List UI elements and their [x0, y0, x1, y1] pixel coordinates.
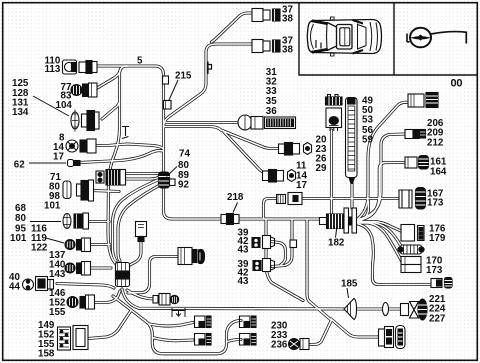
- wire 39/42/43 chain: [271, 242, 286, 265]
- wire diagonal to connector 20/23: [164, 127, 280, 149]
- leader 218: [233, 203, 238, 213]
- wire from small connector 276 to riser x265: [264, 199, 279, 219]
- wire 77/83 branch: [94, 71, 120, 90]
- connector 71 A: [63, 180, 94, 201]
- wire main trunk: loop top + right vertical + bottom run to boot 182: [95, 66, 322, 219]
- wire middle assembly feed: [128, 257, 178, 294]
- connector 71 B: [96, 170, 126, 186]
- svg-text:218: 218: [227, 192, 244, 203]
- svg-text:182: 182: [328, 238, 345, 249]
- wire 146/152 branch: [87, 291, 120, 303]
- connector 116/119/122: [65, 238, 91, 252]
- connector 161/164: [405, 156, 429, 170]
- wire fan boot to inline connector 278: [357, 223, 402, 262]
- component box 326,97: [326, 95, 343, 132]
- wire fan boot to 206 connector: [357, 134, 406, 220]
- connector 20/23/26/29: [279, 143, 312, 156]
- node 206/209/212 labels: [427, 118, 444, 149]
- car top view: [307, 17, 381, 56]
- connector 37/38 no2: [252, 40, 280, 53]
- wire to connector at 158,297: [127, 290, 155, 299]
- connector 77/83: [71, 83, 97, 97]
- connector 158,297: [153, 294, 179, 306]
- tab upper on trunk: [163, 76, 169, 84]
- wire inner white cores: [57, 13, 436, 354]
- leader 182: [336, 226, 338, 238]
- connector 230/233/236: [289, 339, 310, 350]
- svg-text:173: 173: [426, 265, 443, 276]
- assembly 185: [344, 299, 427, 321]
- connector 68/80/95/101: [63, 213, 89, 229]
- cylinder component 117,263: [116, 263, 130, 287]
- connector 31-36: [238, 115, 296, 130]
- connector 39/42/43 no1: [252, 236, 275, 249]
- wire bottom loop: [113, 296, 241, 354]
- connector 125/128/131/134: [71, 110, 99, 132]
- wire riser x292 to 39/42/43: [272, 220, 292, 267]
- wire fan boot to 49/50 connector: [357, 102, 408, 219]
- node 39/42/43 group2 labels: [238, 259, 249, 287]
- node 40/44 labels: [9, 272, 20, 293]
- wire left bundle a: [113, 179, 161, 261]
- svg-text:227: 227: [429, 314, 446, 325]
- svg-text:38: 38: [282, 45, 293, 56]
- svg-text:236: 236: [271, 340, 288, 351]
- wire strip feed: [350, 184, 353, 208]
- svg-text:17: 17: [296, 180, 307, 191]
- wiring harness tubes: [57, 13, 436, 354]
- wire fan boot to 170 box: [357, 222, 403, 250]
- svg-text:122: 122: [31, 243, 48, 254]
- connector 218 inline: [221, 214, 239, 225]
- node 221/224/227 labels: [429, 294, 446, 325]
- wire 62 branch: [80, 151, 163, 163]
- tab on riser 292: [290, 240, 297, 248]
- node 71/80/98/101 labels: [44, 172, 61, 212]
- node 137/140/143 labels: [49, 250, 66, 280]
- svg-text:113: 113: [45, 64, 61, 75]
- wire 125/134 branch: [102, 102, 120, 119]
- lamp box group3: [240, 316, 257, 328]
- svg-text:92: 92: [178, 180, 189, 191]
- svg-text:00: 00: [451, 78, 463, 90]
- svg-text:5: 5: [137, 56, 143, 67]
- inset box top right: [299, 3, 477, 75]
- tab 215 on trunk: [164, 101, 172, 110]
- svg-text:29: 29: [316, 163, 327, 174]
- node 37/38 pair2 labels: [282, 36, 293, 56]
- svg-text:104: 104: [56, 100, 73, 111]
- node 31/32/33/35/36 labels: [266, 67, 277, 117]
- connector 37/38 no1: [252, 9, 280, 22]
- svg-text:155: 155: [49, 307, 66, 318]
- lamp box group2: [195, 334, 212, 346]
- node 110/113 labels: [45, 56, 61, 76]
- svg-text:212: 212: [427, 138, 444, 149]
- svg-text:36: 36: [266, 106, 277, 117]
- connector 167/173: [399, 188, 426, 210]
- node 149/152/155/158 labels: [38, 320, 55, 360]
- node 116/119/122 labels: [31, 224, 48, 254]
- node 20/23/26/29 labels: [316, 134, 327, 174]
- wire branch to lamp box2: [152, 338, 193, 341]
- trunk clip 74/80/89/92: [159, 172, 176, 188]
- leader 215: [169, 80, 178, 100]
- wire long horizontal to 185: [122, 289, 348, 309]
- svg-text:101: 101: [44, 201, 61, 212]
- node 146/152/155 labels: [49, 288, 66, 318]
- connector 206/209/212: [405, 130, 426, 139]
- connector 170/173: [401, 257, 421, 273]
- leader 125 group: [33, 96, 69, 116]
- wire 119/122 branch: [87, 243, 110, 246]
- node 170/173 labels: [426, 256, 443, 277]
- connector 40/44: [23, 277, 54, 291]
- wire junction to K: [309, 301, 331, 320]
- connector bottom right: [379, 326, 406, 349]
- tall ribbed strip 49-59: [346, 98, 358, 184]
- wire 37/38 pair2: [164, 44, 254, 127]
- leader 119: [46, 238, 64, 243]
- wire 185 shaft: [354, 307, 403, 310]
- leader lines: [29, 80, 349, 298]
- device 136,222: [136, 222, 147, 242]
- svg-text:53: 53: [362, 115, 373, 126]
- connector 149/152/155/158: [58, 326, 89, 351]
- tab on 37/38 riser: [208, 62, 212, 75]
- svg-text:59: 59: [362, 135, 373, 146]
- connector 146/152/155: [67, 295, 95, 309]
- leader 68/80: [30, 221, 61, 223]
- node 37/38 pair1 labels: [282, 5, 293, 25]
- connector 176/179: [401, 225, 424, 242]
- svg-text:134: 134: [12, 107, 29, 118]
- wire 37/38 pair1 diagonal: [212, 13, 254, 42]
- wire fan boot to 161 connector: [357, 163, 406, 221]
- svg-text:62: 62: [14, 160, 25, 171]
- node 125/128/131/134 labels: [12, 78, 29, 118]
- clamp marks on loop left: [122, 127, 129, 139]
- svg-text:185: 185: [341, 279, 358, 290]
- svg-text:164: 164: [430, 167, 447, 178]
- connector mid assembly 176-204: [178, 248, 205, 265]
- svg-text:143: 143: [49, 269, 66, 280]
- connector inline 278: [431, 278, 452, 289]
- connector 11/14/17: [263, 170, 296, 183]
- wire K to bottom right connector: [331, 319, 380, 337]
- svg-text:44: 44: [9, 282, 20, 293]
- leader 62: [29, 162, 66, 164]
- node 68/80/95/101 labels: [10, 203, 27, 244]
- wire horizontal y198 to 167/173: [300, 197, 402, 200]
- node 176/179 labels: [429, 224, 446, 245]
- clamp symbol on long wire: [172, 308, 185, 317]
- wire 71 B branches: [125, 174, 160, 180]
- connector small 276: [277, 193, 303, 205]
- wire branch to lamp box4: [227, 340, 242, 343]
- wire riser x307: [307, 220, 311, 303]
- node 11/14/17 labels: [296, 161, 307, 192]
- wire 149/158 branch: [88, 311, 131, 339]
- svg-text:43: 43: [238, 276, 249, 287]
- wire 71 A branch: [92, 191, 119, 192]
- node 161/164 labels: [430, 157, 447, 178]
- wire branch to lamp box1: [150, 323, 194, 327]
- wire 137/140 branch: [87, 266, 111, 269]
- svg-text:173: 173: [427, 197, 444, 208]
- wire device drop: [128, 239, 141, 266]
- wire 40/44 branch: [57, 284, 114, 289]
- node 39/42/43 group1 labels: [238, 227, 249, 255]
- wire fan boot to inline connector 278: [357, 224, 436, 285]
- svg-text:74: 74: [179, 149, 190, 160]
- svg-text:158: 158: [38, 349, 55, 360]
- svg-text:215: 215: [175, 71, 192, 82]
- svg-text:38: 38: [282, 14, 293, 25]
- boot 182: [320, 208, 357, 233]
- wire loop 5 left vertical: [108, 66, 127, 263]
- connector 8/14/17: [66, 139, 96, 153]
- connector ribbed bar: [398, 245, 424, 254]
- leader 185: [347, 288, 349, 298]
- lamp box group4: [240, 334, 257, 346]
- wire left bundle b: [118, 185, 160, 261]
- svg-text:80: 80: [15, 213, 26, 224]
- wire fan boot to rib bar: [357, 222, 402, 232]
- svg-text:17: 17: [53, 152, 64, 163]
- node 49/50/53/56/59 labels: [362, 96, 373, 146]
- node 74/80/89/92 labels: [178, 149, 190, 191]
- node 167/173 labels: [427, 188, 444, 208]
- key symbol: [407, 28, 466, 48]
- lamp box group1: [195, 316, 212, 328]
- connector 110/113: [63, 60, 98, 74]
- connector 62 inline: [68, 160, 81, 167]
- connector 137/140/143: [65, 262, 91, 276]
- connector 39/42/43 no2: [253, 259, 275, 272]
- wire 8/14/17 branch: [94, 144, 163, 149]
- wire 68/80 branch: [87, 220, 109, 223]
- svg-text:101: 101: [10, 233, 27, 244]
- wire horizontal to connector 31-36: [164, 121, 240, 124]
- wire component feed: [330, 130, 333, 213]
- wire K to 230 connector: [306, 320, 332, 345]
- leader 74-92 group: [167, 167, 178, 177]
- wire riser x266 to junction J: [266, 220, 303, 301]
- node 230/233/236 labels: [271, 321, 288, 351]
- connector 49/50/53: [408, 93, 438, 108]
- node 8/14/17 labels: [53, 133, 65, 163]
- node 77/83 labels: [61, 82, 72, 102]
- svg-text:43: 43: [238, 244, 249, 255]
- wire fan boot to 176 box: [357, 201, 369, 221]
- svg-text:179: 179: [429, 233, 446, 244]
- wire diagonal to connector 11/14: [224, 132, 267, 174]
